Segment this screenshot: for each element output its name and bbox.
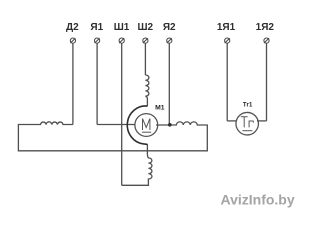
svg-text:1Я2: 1Я2 xyxy=(256,22,275,33)
svg-text:M1: M1 xyxy=(155,105,165,112)
svg-text:Ш1: Ш1 xyxy=(114,22,130,33)
svg-text:1Я1: 1Я1 xyxy=(217,22,236,33)
svg-text:Тг1: Тг1 xyxy=(243,102,253,108)
svg-text:Я2: Я2 xyxy=(163,22,176,33)
svg-text:Я1: Я1 xyxy=(90,22,103,33)
svg-text:Д2: Д2 xyxy=(66,22,79,33)
svg-text:Ш2: Ш2 xyxy=(137,22,153,33)
svg-text:AvizInfo.by: AvizInfo.by xyxy=(221,191,295,207)
